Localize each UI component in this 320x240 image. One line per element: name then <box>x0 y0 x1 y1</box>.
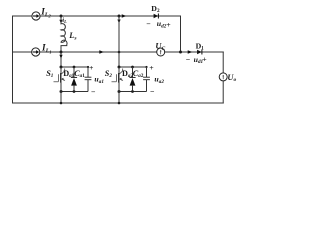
node S2 feed junction on H2 <box>118 51 121 54</box>
wire current arrow right on H1 <box>122 14 127 17</box>
wire S2 feed vertical H1 to rail <box>118 16 120 67</box>
voltage source UC <box>157 48 165 56</box>
diode D1 <box>197 50 202 55</box>
svg-text:iL: iL <box>62 18 67 24</box>
current source IL1 <box>32 48 40 56</box>
wire cell1 top rail <box>61 66 88 68</box>
wire current arrow down below H1 junction <box>118 17 120 20</box>
wire S1 source to bottom bus <box>60 67 62 103</box>
node H1-inductor junction <box>60 15 63 18</box>
wire S1 feed with down arrow <box>60 52 62 67</box>
wire left vertical <box>12 16 14 103</box>
node rail2 end dot <box>145 66 147 68</box>
node rail1 dots <box>60 66 63 69</box>
wire cell2 bottom rail <box>119 91 147 93</box>
diode D2 <box>154 14 159 19</box>
svg-text:+: + <box>89 63 94 72</box>
transistor S1 <box>54 69 66 83</box>
svg-text:+: + <box>166 20 171 29</box>
node S1 feed junction on H2 <box>60 51 63 54</box>
svg-text:+: + <box>149 63 154 72</box>
svg-text:−: − <box>146 20 151 29</box>
current source IL2 <box>32 12 40 20</box>
diode Da2 <box>129 67 135 92</box>
capacitor Ca2 <box>143 67 150 92</box>
wire current arrow iL down <box>60 17 62 21</box>
capacitor Ca1 <box>85 67 92 92</box>
node H1 junction x119 <box>118 15 121 18</box>
node D2 branch junction on H2 <box>179 51 182 54</box>
diode Da1 <box>71 67 77 92</box>
wire cell1 bottom rail <box>61 91 88 93</box>
wire top bus H1 <box>13 15 181 17</box>
svg-text:−: − <box>91 88 96 97</box>
svg-text:+: + <box>202 54 207 63</box>
wire current arrow on H2 toward cell2 <box>99 50 104 53</box>
voltage source Uo <box>219 73 227 81</box>
transistor S2 <box>112 69 124 83</box>
node rail1 end dot <box>87 66 89 68</box>
svg-text:−: − <box>186 55 191 64</box>
svg-text:−: − <box>150 87 155 96</box>
wire S2 source to bottom bus <box>118 67 120 103</box>
wire bottom bus <box>13 102 224 104</box>
wire mid bus H2 <box>13 51 224 53</box>
wire right output vertical <box>222 52 224 73</box>
wire cell2 top rail <box>119 66 147 68</box>
inductor Ls <box>61 16 67 52</box>
wire current arrow before D1 <box>188 50 193 53</box>
wire D2 branch vertical <box>180 16 182 52</box>
